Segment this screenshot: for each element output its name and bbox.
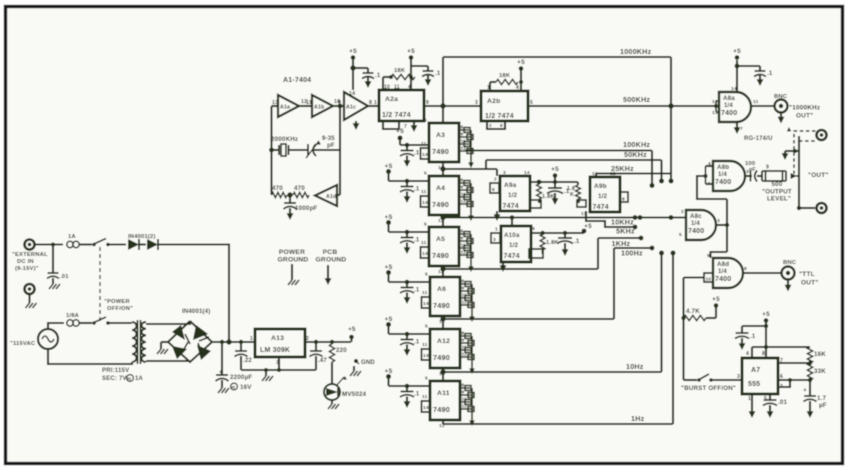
node cap A12	[405, 332, 410, 337]
wire A8b feed	[697, 176, 727, 199]
svg-text:A9b: A9b	[594, 183, 607, 190]
wire 1000KHz drop	[669, 57, 674, 184]
wire 33K down	[809, 380, 811, 394]
capacitor .1 A3	[400, 145, 420, 167]
svg-text:"EXTERNAL: "EXTERNAL	[12, 252, 48, 258]
pin 14 wire +5 A8a	[733, 48, 741, 92]
node 500KHz junction	[668, 103, 673, 108]
node	[537, 180, 542, 185]
pin 5	[764, 396, 767, 402]
pin 8	[762, 351, 765, 357]
node	[563, 231, 567, 235]
label 1KHz	[612, 239, 631, 248]
pin 6	[780, 374, 783, 380]
wire	[553, 174, 557, 188]
wire A3 to A9a	[443, 169, 497, 176]
bridge rectifier IN4001(4)	[168, 321, 212, 362]
svg-text:14: 14	[524, 170, 530, 176]
label 1.7uF	[817, 395, 827, 409]
svg-text:33K: 33K	[814, 368, 826, 375]
wire 100Hz	[614, 246, 654, 251]
svg-text:1000KHz: 1000KHz	[620, 47, 652, 56]
inverter A1d	[315, 185, 337, 206]
wire 1000KHz	[443, 56, 671, 58]
gate A8d 1/4 7400	[713, 258, 743, 288]
label .01	[778, 399, 788, 406]
svg-text:8: 8	[462, 383, 465, 388]
svg-text:1: 1	[374, 100, 377, 106]
svg-text:1/4: 1/4	[718, 269, 727, 275]
node	[669, 215, 674, 220]
node cap A6	[405, 280, 410, 285]
node	[638, 215, 643, 220]
svg-text:11: 11	[461, 139, 466, 144]
wire burst drop	[684, 318, 698, 380]
svg-text:12: 12	[461, 250, 467, 255]
capacitor .1 (A9a)	[547, 188, 570, 205]
input bar A8b	[704, 166, 714, 184]
svg-text:11: 11	[462, 345, 467, 350]
svg-text:.22: .22	[243, 358, 252, 364]
svg-text:A1d: A1d	[326, 194, 336, 200]
wire into A8a	[671, 105, 716, 107]
svg-text:11: 11	[461, 192, 466, 197]
node	[808, 378, 812, 382]
output pins A4	[459, 181, 474, 222]
wire vac top	[48, 323, 64, 329]
svg-text:BNC: BNC	[774, 94, 788, 100]
wire osc left rail	[272, 106, 279, 195]
terminal jack lower	[817, 203, 827, 213]
svg-text:A12: A12	[437, 338, 450, 345]
power +5 A6	[385, 264, 393, 271]
svg-text:A7: A7	[751, 367, 760, 374]
wire +5 A11	[389, 377, 431, 387]
label 2000KHz	[271, 136, 298, 143]
svg-text:+5: +5	[385, 368, 393, 375]
svg-text:5: 5	[764, 396, 767, 402]
svg-text:R: R	[232, 385, 236, 391]
label POWER OFF/ON	[104, 299, 133, 312]
svg-text:PRI:115V: PRI:115V	[102, 368, 129, 374]
wire +5 to A1c pin14	[352, 56, 354, 90]
label 100pF	[745, 161, 756, 173]
pin 2	[681, 209, 684, 215]
svg-text:(9-15V)": (9-15V)"	[15, 266, 39, 272]
pin 4 A10a	[532, 226, 535, 232]
label BNC	[774, 94, 788, 100]
pin 6	[500, 123, 503, 128]
label IN4001(4)	[182, 309, 210, 315]
wire shield drop	[782, 149, 798, 160]
svg-text:1/4: 1/4	[718, 172, 727, 178]
node	[239, 340, 243, 344]
svg-text:A1a: A1a	[280, 104, 290, 110]
inverter A1a	[278, 95, 299, 117]
svg-text:A3: A3	[436, 132, 445, 139]
svg-text:13: 13	[712, 110, 718, 116]
pin labels A5	[461, 229, 467, 255]
node cap2200	[220, 340, 224, 344]
BNC TTL OUT	[782, 267, 795, 280]
svg-text:8: 8	[461, 125, 464, 130]
svg-text:7: 7	[740, 126, 743, 132]
pin 3 A8c	[717, 218, 720, 224]
pin 4	[408, 85, 411, 91]
label 1.8K (A10a)	[546, 240, 559, 246]
wire 50KHz	[486, 160, 662, 169]
svg-text:7490: 7490	[433, 353, 450, 362]
pin 1	[374, 100, 377, 106]
svg-text:A13: A13	[271, 335, 284, 342]
wire A2a out	[424, 105, 481, 107]
svg-text:4: 4	[532, 226, 535, 232]
pin 14 stub A6	[422, 297, 431, 308]
capacitor .01	[763, 398, 777, 418]
svg-text:2: 2	[681, 209, 684, 215]
wire pri bottom	[48, 349, 132, 364]
wire A3-A4 link	[442, 162, 444, 176]
ground symbol pcb	[325, 265, 332, 285]
pin 3	[737, 374, 740, 380]
gate A8a 1/4 7400	[719, 92, 751, 122]
svg-text:DC IN: DC IN	[17, 259, 34, 265]
pin 5 A8c	[679, 232, 682, 238]
LED MV5024	[324, 362, 347, 409]
BNC 1000KHz OUT	[775, 100, 788, 113]
gate A8c 1/4 7400	[686, 210, 716, 240]
node A1c out	[338, 104, 343, 109]
wire +5 A4	[389, 172, 430, 182]
pin 12	[301, 99, 307, 105]
resistor 1.8K (A10a)	[529, 234, 545, 258]
ground A13	[262, 368, 273, 381]
label 2200uF 16V	[230, 374, 252, 391]
gate A8b 1/4 7400	[713, 161, 745, 191]
pin 14 A9a	[524, 170, 530, 176]
label 1/8A	[66, 313, 80, 319]
svg-text:7490: 7490	[432, 147, 449, 156]
svg-text:12: 12	[462, 404, 468, 409]
pin 3	[746, 169, 749, 175]
terminal ext DC -	[25, 284, 35, 294]
node A2a output	[440, 103, 445, 108]
output pins A6	[460, 282, 475, 323]
pin 12 A3	[438, 165, 444, 171]
pin 5 A11	[425, 376, 428, 382]
wire +5 A3	[400, 138, 429, 145]
wire osc right rail	[339, 106, 341, 195]
ground A10a	[500, 262, 507, 272]
svg-text:1/2 7474: 1/2 7474	[382, 112, 411, 119]
label 16K	[814, 351, 826, 358]
counter A5 7490	[429, 227, 459, 266]
wire cap 555	[742, 326, 766, 331]
svg-text:A2a: A2a	[385, 96, 398, 103]
svg-text:12: 12	[461, 199, 467, 204]
flip-flop A2b	[481, 91, 528, 121]
node	[51, 243, 55, 247]
fuse 1A	[67, 241, 92, 247]
resistor 18K (A2a preset)	[391, 74, 415, 79]
svg-text:+5: +5	[712, 296, 720, 303]
pin 12 A12	[439, 371, 445, 377]
diode IN4001 #1	[128, 239, 146, 250]
label 100KHz	[623, 140, 650, 149]
svg-text:.01: .01	[778, 399, 788, 406]
svg-text:+5: +5	[385, 163, 393, 170]
node	[764, 324, 768, 328]
pin 12 A4	[438, 218, 444, 224]
svg-text:12: 12	[712, 99, 718, 105]
svg-text:+5: +5	[762, 311, 770, 318]
svg-text:16K: 16K	[814, 351, 826, 358]
wire 18K left to pin 10	[383, 77, 391, 90]
pin 13	[272, 100, 278, 106]
power +5 A2a	[407, 48, 415, 60]
IC A1 label	[283, 77, 311, 84]
label 1.8K (A9b)	[567, 186, 575, 198]
svg-text:+5: +5	[517, 59, 525, 66]
svg-text:16V: 16V	[240, 384, 252, 391]
label TTL OUT	[799, 271, 819, 287]
wire A11 bottom	[442, 420, 444, 424]
node	[330, 340, 334, 344]
node	[389, 75, 393, 79]
pin 14	[731, 86, 737, 92]
svg-text:MV5024: MV5024	[342, 391, 367, 398]
pin 4	[746, 351, 749, 357]
svg-text:14: 14	[423, 301, 429, 307]
svg-text:.1: .1	[414, 187, 420, 193]
svg-text:5: 5	[424, 118, 427, 124]
svg-text:µF: µF	[819, 402, 827, 409]
wire A1c out	[368, 105, 379, 107]
pin 1	[748, 396, 751, 402]
svg-text:9: 9	[461, 185, 464, 190]
pin 14 stub A11	[422, 401, 431, 412]
wire pin2 loop	[778, 380, 790, 387]
pin 11	[306, 100, 312, 106]
wire	[757, 175, 762, 177]
svg-text:8: 8	[462, 279, 465, 284]
label IN4001(2)	[128, 234, 156, 240]
svg-text:7400: 7400	[688, 228, 704, 235]
wire to lower jack	[799, 207, 815, 209]
svg-text:R: R	[128, 377, 132, 383]
svg-text:25KHz: 25KHz	[611, 164, 634, 173]
wire 100KHz	[465, 149, 652, 151]
power +5 A10a	[582, 223, 592, 233]
capacitor .1 A6	[400, 282, 420, 304]
svg-text:470: 470	[294, 185, 305, 192]
ground pin 7 A2a	[411, 121, 418, 132]
svg-text:7490: 7490	[432, 251, 449, 260]
svg-text:9: 9	[462, 390, 465, 395]
output pins A3	[459, 128, 474, 169]
svg-text:5: 5	[425, 376, 428, 382]
loop A2a pins 1-3	[383, 121, 399, 129]
pin stub boxes A9a	[490, 183, 500, 193]
svg-text:A4: A4	[436, 185, 445, 192]
pin 3	[475, 100, 478, 106]
label .47	[318, 358, 327, 364]
svg-text:470: 470	[272, 185, 283, 192]
label RG-174/U	[744, 136, 773, 142]
node	[350, 65, 355, 70]
svg-text:K: K	[570, 192, 574, 198]
capacitor .1 (A8a)	[754, 66, 773, 86]
wire A5 out	[443, 268, 598, 270]
potentiometer 500 OUTPUT LEVEL	[762, 171, 799, 181]
power dot A12	[386, 322, 391, 327]
svg-text:.47: .47	[318, 358, 327, 364]
label 1000pF	[295, 205, 318, 212]
svg-text:pF: pF	[749, 167, 756, 173]
wire +5 to cap2	[411, 65, 428, 67]
svg-text:14: 14	[422, 251, 428, 257]
node cap A5	[405, 230, 410, 235]
pin 11 A6	[422, 290, 428, 296]
svg-text:+5: +5	[385, 316, 393, 323]
inverter A1b	[312, 95, 333, 117]
svg-text:A1c: A1c	[346, 104, 356, 110]
svg-text:2: 2	[494, 177, 497, 183]
node	[681, 316, 685, 320]
svg-text:.1: .1	[574, 239, 580, 245]
pin 5	[530, 100, 533, 106]
svg-text:A8c: A8c	[690, 213, 702, 220]
svg-text:1000pF: 1000pF	[295, 205, 318, 212]
capacitor .1 A12	[400, 334, 420, 356]
pin 7 ground A9a	[494, 211, 501, 221]
pin 8 stub A9b	[620, 192, 628, 203]
wire vertical bus B	[659, 251, 664, 373]
capacitor 100pF	[750, 171, 757, 182]
svg-text:LEVEL": LEVEL"	[767, 196, 791, 203]
svg-text:6: 6	[500, 123, 503, 128]
capacitor .1 (A1)	[362, 68, 381, 88]
wire 25KHz riser	[595, 174, 597, 178]
node	[314, 340, 318, 344]
power +5 osc	[349, 48, 357, 60]
pin 9	[707, 253, 710, 259]
svg-text:14: 14	[349, 91, 355, 97]
capacitor .01 input	[47, 245, 59, 285]
wire A4-A5 link	[442, 215, 444, 227]
pin stub boxes A10a	[491, 233, 500, 243]
pin labels A12	[462, 331, 468, 357]
svg-text:5: 5	[425, 272, 428, 278]
node cap A3	[405, 143, 410, 148]
svg-text:+5: +5	[733, 48, 741, 55]
diode IN4001 #2	[147, 239, 158, 250]
pin 11 A3	[421, 141, 427, 147]
svg-text:5: 5	[424, 222, 427, 228]
label 10Hz	[626, 362, 644, 371]
pin 1 A10a	[495, 227, 498, 233]
wire A13 out	[305, 341, 351, 343]
wire 1000KHz riser	[442, 57, 444, 106]
wire vertical bus C	[671, 251, 676, 425]
capacitor .22	[235, 342, 248, 370]
svg-text:11: 11	[421, 240, 427, 246]
svg-text:+5: +5	[551, 166, 559, 173]
svg-text:A9a: A9a	[504, 182, 517, 189]
label .01	[60, 274, 69, 280]
pin 11 A5	[421, 240, 427, 246]
label 1Hz	[631, 414, 645, 423]
svg-text:.1: .1	[750, 334, 756, 340]
power dot A6	[386, 270, 391, 275]
svg-text:7400: 7400	[721, 110, 737, 117]
svg-text:11: 11	[421, 189, 427, 195]
wire 1KHz	[598, 236, 643, 241]
wire A1d out	[337, 194, 340, 196]
power +5 4.7K	[712, 296, 720, 308]
svg-text:"BURST OFF/ON": "BURST OFF/ON"	[681, 385, 736, 392]
ground bridge	[157, 342, 168, 354]
wire A10a pin4	[531, 232, 584, 234]
svg-text:.1: .1	[767, 71, 773, 77]
svg-text:1/4: 1/4	[724, 103, 733, 109]
wire A8c out	[716, 224, 727, 226]
resistor 220	[329, 344, 334, 362]
svg-text:4.7K: 4.7K	[686, 308, 700, 315]
resistor 1.8K (A9b)	[576, 182, 586, 207]
svg-text:+5: +5	[385, 214, 393, 221]
svg-text:1/2: 1/2	[509, 242, 519, 249]
svg-text:14: 14	[422, 200, 428, 206]
svg-text:A10a: A10a	[504, 232, 520, 239]
pin 10 stub A8d	[704, 273, 713, 282]
svg-text:11: 11	[753, 99, 759, 105]
regulator A13 LM309K	[255, 329, 305, 357]
label 470 #2	[294, 185, 305, 192]
pin labels A3	[461, 125, 467, 151]
capacitor 4.7uF	[803, 387, 817, 418]
svg-text:5: 5	[679, 232, 682, 238]
wire 1KHz riser	[597, 238, 599, 269]
power +5 A9 cap	[551, 166, 559, 178]
svg-text:14: 14	[731, 86, 737, 92]
svg-text:100Hz: 100Hz	[621, 249, 643, 258]
label 500KHz	[623, 95, 650, 104]
label POWER GROUND	[278, 249, 309, 264]
wire A13 bottom	[241, 357, 316, 372]
wire 555 top rail	[752, 345, 810, 358]
pin 9	[426, 100, 429, 106]
counter A11 7490	[430, 381, 460, 420]
svg-text:3: 3	[493, 237, 496, 243]
wire dc to regulator	[158, 245, 229, 343]
node cap A4	[405, 179, 410, 184]
svg-text:GND: GND	[361, 360, 375, 366]
wire +5 A12	[389, 325, 431, 335]
flip-flop A10a	[501, 226, 531, 262]
switch linkage (dashed)	[99, 247, 101, 322]
svg-text:8: 8	[762, 351, 765, 357]
svg-text:11: 11	[461, 243, 466, 248]
wire sec top	[146, 321, 190, 324]
label OUT	[808, 172, 829, 179]
svg-text:A1-7404: A1-7404	[283, 77, 311, 84]
power +5 output	[348, 326, 356, 342]
svg-text:IN4001(4): IN4001(4)	[182, 309, 210, 315]
wire A8c to A8b	[726, 199, 728, 252]
svg-text:"TTL: "TTL	[799, 271, 815, 278]
svg-text:12: 12	[462, 352, 468, 357]
